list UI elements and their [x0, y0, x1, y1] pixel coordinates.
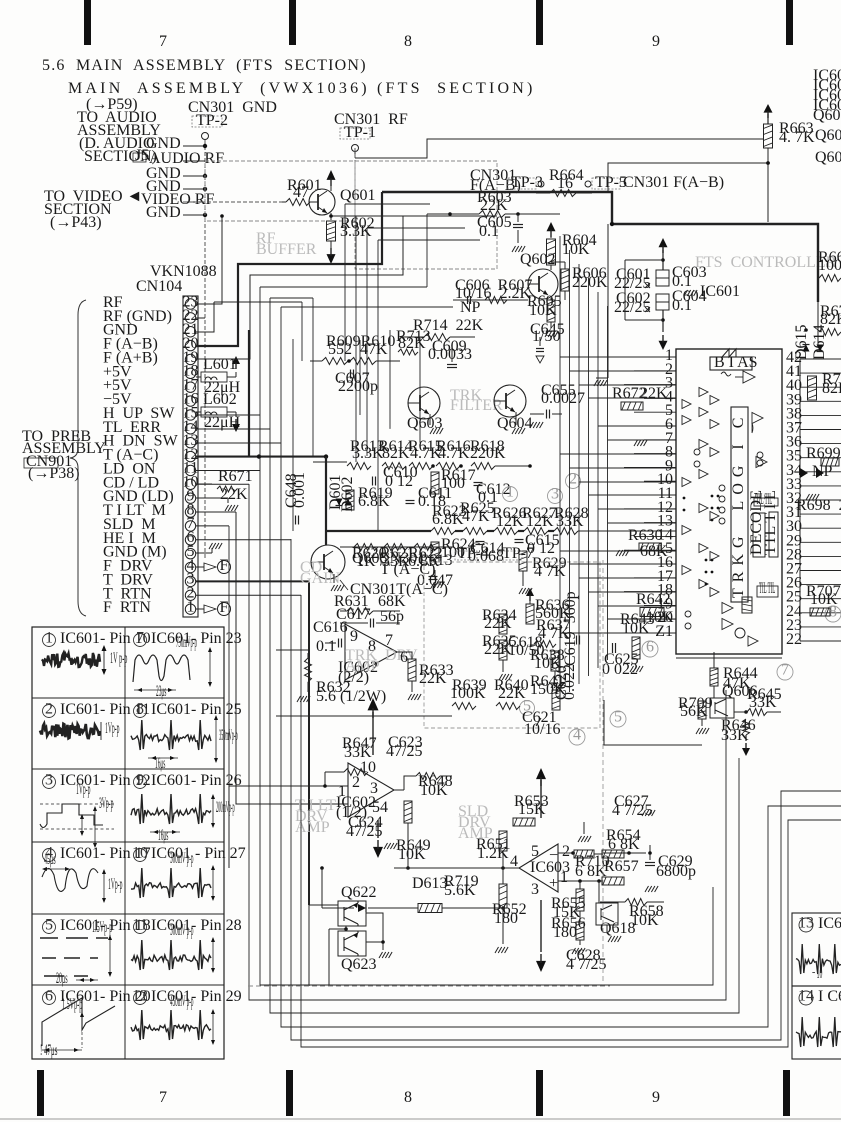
wire horizontal left of IC601 [560, 356, 676, 358]
svg-text:1Vp-p: 1Vp-p [108, 876, 123, 893]
wire row bottom [276, 715, 452, 717]
svg-text:22K: 22K [498, 685, 526, 702]
pin 15 H UP SW [185, 410, 195, 420]
wire mid horizontals [196, 414, 260, 416]
pin 7 SLD M [185, 521, 195, 531]
svg-text:2: 2 [569, 471, 577, 488]
svg-text:13: 13 [798, 914, 814, 931]
waveform cell 1 label [43, 634, 56, 647]
wire heavy row C bus [326, 530, 431, 532]
svg-text:1: 1 [506, 484, 514, 501]
power arrow up Q601 [327, 170, 336, 180]
waveform 11 spiky [131, 940, 211, 970]
resistor R602 [330, 213, 332, 220]
svg-text:R657: R657 [604, 858, 639, 875]
svg-text:4 7K: 4 7K [534, 563, 566, 580]
resistor R624 [431, 542, 439, 562]
op-amp IC602 2/2 TRK DRV AMP [345, 624, 397, 680]
svg-text:12K: 12K [496, 513, 524, 530]
circled 4 [569, 729, 585, 745]
svg-text:IC601: IC601 [700, 283, 740, 300]
waveform 8 spiky [131, 720, 211, 750]
waveform 10 spiky [131, 868, 211, 898]
wire r663 column link [767, 170, 769, 222]
svg-text:1: 1 [45, 629, 53, 646]
ic601 8 circles [757, 452, 763, 458]
wire pin20 heavy [196, 192, 382, 346]
op-amp IC602 1/2 TILT DRV AMP [348, 763, 394, 817]
svg-text:TIL TIL: TIL TIL [756, 491, 772, 508]
resistor R620 [354, 544, 378, 551]
wire dashes bottom [248, 985, 610, 987]
svg-text:10K: 10K [562, 241, 590, 258]
svg-text:16: 16 [557, 175, 573, 192]
ground Q603 [429, 414, 431, 425]
pin 18 +5V [185, 368, 195, 378]
svg-text:BUFFER: BUFFER [256, 241, 317, 258]
op-amp IC603 SLD DRV AMP [519, 844, 558, 892]
transistor Q601 [309, 189, 335, 215]
waveform cell 11 label [134, 921, 147, 934]
svg-text:6.8K: 6.8K [358, 493, 390, 510]
pin 22 RF (GND) [185, 313, 195, 323]
wire bottom staircase [260, 287, 713, 985]
svg-text:TIL TIL: TIL TIL [759, 580, 775, 597]
circled 8 [825, 606, 841, 622]
svg-text:68K: 68K [640, 543, 668, 560]
svg-text:8: 8 [404, 33, 412, 50]
svg-text:Q606,: Q606, [815, 149, 841, 166]
svg-text:2: 2 [352, 774, 360, 791]
svg-text:5: 5 [45, 916, 53, 933]
svg-text:D602: D602 [339, 476, 356, 512]
svg-text:100K: 100K [450, 685, 486, 702]
wire row C tail [578, 530, 676, 532]
resistor R622 [414, 544, 438, 551]
ground R672 left [596, 377, 608, 379]
svg-text:10: 10 [360, 759, 376, 776]
svg-text:450mV p-p: 450mV p-p [170, 993, 194, 1010]
resistor R607 [485, 297, 507, 304]
svg-text:(→P43): (→P43) [50, 214, 102, 231]
svg-text:IC601- Pin 28: IC601- Pin 28 [151, 917, 242, 934]
waveform cell 12 label [134, 992, 147, 1005]
pin 14 TL ERR [185, 424, 195, 434]
svg-text:10K: 10K [631, 912, 659, 929]
op-amp bias [743, 371, 755, 383]
svg-text:NP: NP [460, 299, 481, 316]
svg-text:47/25: 47/25 [386, 743, 422, 760]
waveform cell 9 label [134, 776, 147, 789]
svg-text:TP-7: TP-7 [502, 545, 534, 562]
svg-text:33K: 33K [749, 694, 777, 711]
wire c601 c602 [624, 260, 626, 320]
svg-text:9: 9 [652, 1089, 660, 1106]
svg-text:Q622: Q622 [341, 884, 377, 901]
wire opamp out [397, 651, 430, 653]
wire pin 3 thick [196, 581, 309, 905]
dashed vertical right of sld box [602, 560, 604, 985]
svg-text:IC601- Pin 26: IC601- Pin 26 [151, 772, 242, 789]
wire TP-2 vertical [204, 140, 206, 560]
wire Q601 emitter to right [331, 215, 497, 217]
svg-text:4 7/25: 4 7/25 [566, 956, 606, 973]
motor F DRV [196, 566, 204, 568]
svg-text:IC60: IC60 [818, 915, 841, 932]
test point TP-7 [500, 551, 522, 560]
svg-text:0.1: 0.1 [479, 223, 499, 240]
capacitor C607 [350, 370, 352, 379]
svg-text:Q601: Q601 [340, 187, 376, 204]
waveform 2 noisy [40, 724, 100, 739]
dashed box rf buffer [205, 161, 355, 221]
svg-text:6800p: 6800p [656, 863, 696, 880]
wire q622 net [309, 904, 338, 906]
svg-text:3: 3 [551, 486, 559, 503]
wire heavy tail [817, 302, 819, 345]
svg-text:L602: L602 [203, 391, 237, 408]
svg-text:R699 39: R699 39 [806, 445, 841, 462]
svg-text:TP-4: TP-4 [457, 545, 489, 562]
power arrow up R634 [526, 588, 534, 596]
svg-text:6: 6 [400, 649, 408, 666]
svg-text:GND: GND [146, 204, 181, 221]
power arrow C603 [659, 238, 668, 247]
power arrow up L601 [227, 376, 236, 378]
wire pin 6 [196, 539, 291, 541]
test point TP-4 [455, 551, 477, 560]
resistor R634 [499, 614, 507, 634]
svg-text:7: 7 [159, 1089, 167, 1106]
svg-text:82K: 82K [382, 445, 410, 462]
svg-text:Q605: Q605 [352, 550, 388, 567]
svg-text:9: 9 [136, 771, 144, 788]
svg-text:Q603: Q603 [815, 127, 841, 144]
svg-text:10K: 10K [622, 620, 650, 637]
capacitor C625 [612, 643, 614, 653]
svg-text:11: 11 [132, 916, 147, 933]
svg-text:7: 7 [136, 629, 144, 646]
waveform 7 bumps [133, 655, 190, 682]
resistor R636 [526, 604, 534, 624]
svg-text:350mVp-p: 350mVp-p [219, 727, 238, 744]
waveform cell 13 [792, 913, 841, 986]
svg-text:TP-2: TP-2 [196, 112, 228, 129]
waveform cell 14 [792, 986, 841, 1059]
svg-text:10/16: 10/16 [524, 721, 560, 738]
svg-text:3: 3 [45, 771, 53, 788]
waveform cell 4 label [43, 849, 56, 862]
resistor R605 [547, 300, 555, 322]
circled 5 [610, 711, 626, 727]
svg-text:552 47K: 552 47K [328, 341, 388, 358]
svg-text:2200p: 2200p [338, 378, 378, 395]
resistor R710 [574, 850, 594, 858]
power arrow up SLD [536, 768, 546, 779]
svg-text:F RTN: F RTN [103, 599, 151, 616]
ground R624 [434, 570, 436, 580]
pin 16 −5V [185, 396, 195, 406]
waveform cell 2 label [43, 705, 56, 718]
svg-text:1Vp-p: 1Vp-p [76, 781, 91, 798]
ground Q606 [701, 719, 703, 726]
circled 6 [642, 641, 658, 657]
svg-text:5.6 (1/2W): 5.6 (1/2W) [316, 688, 386, 705]
svg-text:6: 6 [45, 987, 53, 1004]
pin 21 GND [185, 327, 195, 337]
waveform 12 spiky [131, 1010, 211, 1040]
ground C605 [512, 246, 516, 252]
pin 9 GND (LD) [185, 493, 195, 503]
svg-text:1: 1 [187, 598, 195, 615]
svg-text:300mV p-p: 300mV p-p [170, 922, 194, 939]
svg-text:5: 5 [614, 709, 622, 726]
svg-text:IC601- Pin 25: IC601- Pin 25 [151, 701, 242, 718]
waveform cell 6 label [43, 992, 56, 1005]
pin 8 T I LT M [185, 507, 195, 517]
power arrow down C604 [662, 310, 664, 332]
transistor Q603 [408, 387, 440, 419]
pin 3 T DRV [185, 576, 195, 586]
svg-text:0.001: 0.001 [291, 472, 308, 508]
resistor R652 [499, 884, 507, 908]
svg-text:1Vp-p: 1Vp-p [105, 720, 120, 737]
test point TP-2 [192, 116, 222, 127]
svg-text:47K: 47K [462, 508, 490, 525]
waveform 9 spiky [131, 794, 211, 824]
svg-text:2: 2 [562, 843, 570, 860]
ground R649 [384, 843, 388, 849]
power arrow down TILT [377, 820, 379, 838]
svg-text:1/50: 1/50 [532, 328, 560, 345]
waveform table [32, 627, 224, 1059]
connector CN104 body [183, 296, 198, 617]
resistor R649 [404, 801, 412, 823]
ground R632 [307, 682, 309, 692]
pin 11 LD ON [185, 465, 195, 475]
wire pin1 row [558, 880, 602, 882]
wire pin2 out [558, 852, 575, 854]
svg-text:D613: D613 [412, 875, 448, 892]
svg-text:10K: 10K [810, 591, 838, 608]
pin 5 GND (M) [185, 548, 195, 558]
power arrow up TILT [368, 698, 379, 710]
waveform cell 10 label [134, 849, 147, 862]
wire Q601 collector [330, 186, 332, 191]
capacitor C603 [656, 270, 669, 286]
wire pin 7 [196, 525, 229, 527]
svg-text:4.7K: 4.7K [438, 445, 470, 462]
wire staircase verticals2 [344, 204, 346, 361]
svg-text:MAIN ASSEMBLY (VWX1036) (FTS: MAIN ASSEMBLY (VWX1036) (FTS SECTION) [68, 80, 536, 97]
bias bowtie [722, 349, 736, 357]
motor F RTN [196, 608, 204, 610]
ground Q605 [333, 574, 335, 583]
wire below ic601 [604, 700, 702, 745]
resistor R648 [416, 773, 440, 780]
waveform 5 dashes [40, 937, 58, 939]
svg-text:8: 8 [404, 1089, 412, 1106]
svg-text:82K: 82K [822, 380, 841, 397]
wire pins 15 14 13 extensions [359, 340, 361, 415]
svg-text:CN104: CN104 [136, 278, 182, 295]
wire r663 gnd link [608, 163, 768, 192]
pin 2 T RTN [185, 590, 195, 600]
ground pin5 [196, 552, 212, 554]
wire x608 vertical [607, 224, 609, 378]
svg-text:FTS CONTROLLER: FTS CONTROLLER [695, 254, 837, 271]
circled 2 [566, 474, 581, 489]
dashed box sld [424, 562, 600, 728]
transistor Q605 [311, 545, 345, 579]
svg-text:100K: 100K [818, 257, 841, 274]
transistor Q604 [494, 385, 526, 417]
IC601 body [676, 349, 782, 654]
svg-text:56p: 56p [380, 608, 404, 625]
svg-text:4: 4 [510, 853, 518, 870]
waveform cell 7 label [134, 634, 147, 647]
resistor R632 [305, 658, 312, 682]
svg-text:J5: J5 [135, 147, 149, 164]
svg-text:23μs: 23μs [156, 683, 166, 700]
svg-text:22K: 22K [480, 197, 508, 214]
svg-text:D614: D614 [811, 324, 828, 360]
circled 7 [777, 664, 793, 680]
wire x229 bundle [228, 526, 230, 868]
svg-text:200mVp-p: 200mVp-p [216, 799, 235, 816]
svg-text:4: 4 [573, 727, 581, 744]
svg-text:10K: 10K [529, 302, 557, 319]
svg-text:45μs: 45μs [44, 851, 56, 868]
ground ic pin7 [634, 440, 638, 446]
pin 10 CD / LD [185, 479, 195, 489]
svg-text:1.5Vp-p: 1.5Vp-p [92, 919, 112, 936]
wire row C thin [340, 546, 453, 548]
svg-text:16μs: 16μs [158, 827, 168, 844]
svg-text:12K: 12K [526, 513, 554, 530]
svg-text:− 10: − 10 [812, 965, 822, 982]
svg-text:0.1: 0.1 [672, 297, 692, 314]
svg-text:180: 180 [494, 910, 518, 927]
wire pin 10 [196, 483, 249, 485]
wire d613 row [322, 907, 354, 909]
wire Q602 base row [453, 299, 528, 301]
svg-text:R642: R642 [636, 591, 671, 608]
svg-text:10K: 10K [420, 782, 448, 799]
power arrow down R646 [745, 735, 747, 741]
ground R629 [522, 571, 524, 586]
svg-text:14: 14 [798, 987, 814, 1004]
svg-text:AMP: AMP [345, 658, 380, 675]
capacitor C612 [474, 482, 483, 484]
svg-text:5: 5 [531, 843, 539, 860]
svg-text:I C60: I C60 [818, 988, 841, 1005]
ground R638 [554, 671, 556, 680]
ic601 right inner opamps [752, 413, 763, 424]
power arrow down L602 [227, 411, 236, 413]
svg-text:3Vp-p: 3Vp-p [99, 795, 114, 812]
wire row B top [313, 461, 347, 463]
svg-text:1.5Vp-p: 1.5Vp-p [62, 996, 82, 1013]
wire pin 11 [196, 469, 260, 471]
DECODE box [753, 513, 765, 557]
svg-text:0.0033: 0.0033 [428, 346, 472, 363]
svg-text:1V p-p: 1V p-p [110, 650, 127, 667]
power arrow down Q601 [330, 241, 332, 248]
waveform cell 8 label [134, 705, 147, 718]
TIL box small2 [757, 586, 778, 597]
svg-text:0 022: 0 022 [602, 661, 638, 678]
transistor Q623 [338, 931, 366, 956]
circled 3 [548, 489, 563, 504]
pin 1 F RTN [185, 604, 195, 614]
ic601 bottom cluster [722, 603, 733, 614]
svg-text:20μs: 20μs [56, 970, 68, 987]
svg-text:300mV p-p: 300mV p-p [170, 850, 194, 867]
transistor Q618 [596, 903, 618, 925]
svg-text:220K: 220K [572, 274, 608, 291]
wire T(A-C) thick [196, 455, 326, 457]
svg-text:22K: 22K [640, 385, 668, 402]
bias box [710, 357, 752, 370]
svg-text:5.6K: 5.6K [444, 882, 476, 899]
svg-text:10K: 10K [398, 846, 426, 863]
page edge line [0, 1118, 841, 1120]
ground Q604 [515, 412, 517, 425]
svg-text:7: 7 [159, 33, 167, 50]
svg-text:Q623: Q623 [341, 956, 377, 973]
circled S [520, 701, 535, 716]
wire pin 8 [196, 511, 236, 513]
svg-text:IC601 - Pin 27: IC601 - Pin 27 [151, 845, 246, 862]
wire pin22 [196, 317, 205, 319]
svg-text:10: 10 [132, 844, 148, 861]
svg-text:47: 47 [293, 184, 309, 201]
ground pin9 [196, 497, 228, 499]
svg-text:9: 9 [652, 33, 660, 50]
svg-text:1: 1 [560, 869, 568, 886]
pin 4 F DRV [185, 562, 195, 572]
svg-text:+: + [549, 875, 558, 892]
wire TP1 link [355, 139, 764, 158]
waveform 1 noisy [42, 653, 100, 667]
wire pin19 [196, 216, 403, 359]
ground C655 [534, 414, 536, 420]
svg-text:6: 6 [646, 639, 654, 656]
pin 6 HE I M [185, 535, 195, 545]
svg-text:12: 12 [132, 987, 148, 1004]
svg-text:15K: 15K [518, 801, 546, 818]
svg-text:750mVp-p: 750mVp-p [176, 634, 197, 651]
wire pin23 RF [196, 216, 222, 304]
resistor R73x [808, 376, 817, 400]
svg-text:0.1: 0.1 [316, 638, 336, 655]
wire heavy top bus [382, 192, 818, 302]
svg-text:AMP: AMP [295, 819, 330, 836]
ground Q602 [550, 322, 552, 328]
svg-text:Q603: Q603 [407, 415, 443, 432]
svg-text:5.6 MAIN ASSEMBLY (FTS SEC: 5.6 MAIN ASSEMBLY (FTS SECTION) [42, 57, 367, 74]
wire pin21 [196, 302, 214, 332]
wire bundle feeds [214, 301, 302, 303]
wire pin 2 [196, 594, 301, 596]
ground R635 [502, 660, 504, 672]
ground R656 [579, 940, 581, 945]
svg-text:22K: 22K [220, 486, 248, 503]
wire R636 top [529, 598, 531, 604]
wire header [536, 192, 550, 194]
waveform cell 3 label [43, 776, 56, 789]
